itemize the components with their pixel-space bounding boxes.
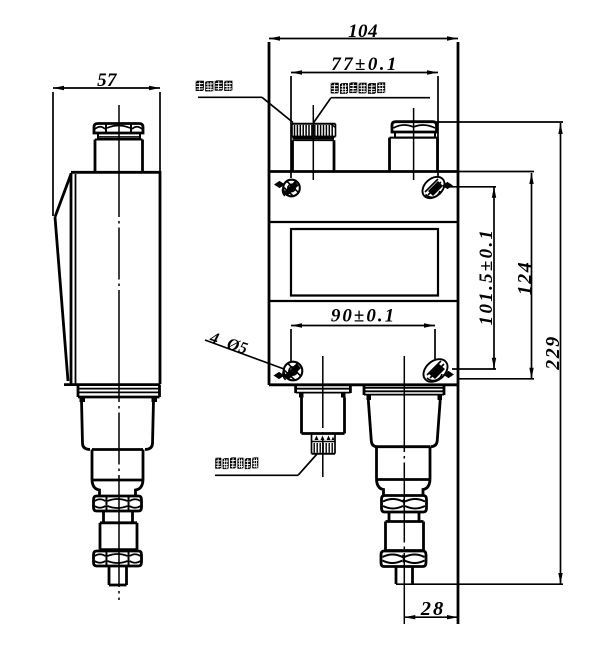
- label lock nut (CJK): [196, 80, 233, 91]
- left connector corner seals: [299, 393, 346, 398]
- diff adjusting knurl: [312, 434, 336, 454]
- label set-point rod (CJK): [331, 82, 386, 93]
- screw bottom-left arrow: [274, 372, 285, 379]
- dim 77 text: [331, 54, 399, 75]
- side view cap washer: [98, 133, 140, 139]
- side view threaded stem: [109, 566, 127, 585]
- right connector lower section: [377, 447, 431, 480]
- dim 229 line: [558, 123, 562, 584]
- knob washer lines: [293, 138, 335, 140]
- screw top-right arrow: [442, 182, 453, 189]
- dim 90 text: [331, 306, 396, 327]
- 101.5 top reference line: [443, 186, 496, 188]
- left connector flange: [296, 385, 351, 393]
- dim 90 right extension: [434, 329, 436, 359]
- left connector cylinder: [302, 398, 345, 434]
- dim 229 text: [542, 335, 564, 371]
- dim 104 text: [348, 21, 378, 42]
- 124 bottom reference line: [458, 378, 534, 380]
- 229 top reference line: [437, 121, 564, 123]
- screw top-right: [418, 173, 448, 203]
- side view block: [100, 523, 137, 550]
- set-point adjusting rod knurl: [292, 124, 336, 137]
- label diff rod (CJK): [215, 457, 258, 469]
- svg-text:229: 229: [542, 335, 564, 371]
- front window plate: [291, 229, 438, 296]
- 124 top reference line: [458, 171, 534, 173]
- side view post: [95, 140, 143, 172]
- dim 77 right extension: [437, 76, 439, 177]
- dim 90 line: [291, 323, 435, 327]
- dim 124 line: [529, 173, 533, 379]
- side view flange: [78, 385, 160, 397]
- side view hex nut upper: [94, 496, 142, 511]
- right connector flange: [364, 385, 444, 395]
- side view center line: [118, 105, 120, 600]
- right connector block: [386, 522, 424, 551]
- front body bottom edge: [269, 383, 458, 386]
- dim 90 left extension: [290, 329, 292, 361]
- front body right edge w/ extension: [457, 42, 460, 624]
- screw top-left: [283, 180, 300, 197]
- svg-text:124: 124: [514, 261, 536, 296]
- right connector neck: [377, 480, 431, 496]
- dim 77 line: [291, 70, 438, 74]
- dim 28 line: [404, 615, 458, 619]
- side view neck 2: [104, 511, 133, 523]
- front body divider lower: [269, 300, 458, 302]
- right connector hex nut lower: [381, 551, 426, 567]
- svg-text:90±0.1: 90±0.1: [331, 306, 396, 327]
- dim 101.5 text: [476, 228, 497, 326]
- dim 57 left extension line: [52, 92, 54, 216]
- label 4-dia5 text: [207, 327, 251, 358]
- dim 77 left extension: [290, 76, 292, 178]
- side view cup lower section: [92, 450, 143, 481]
- dim 28 text: [420, 598, 446, 620]
- label lock nut leader: [198, 97, 293, 122]
- left connector center line: [322, 356, 324, 477]
- screw top-left arrow: [274, 181, 285, 188]
- screw bottom-right arrow: [443, 371, 454, 378]
- side view hex cap nut: [94, 124, 143, 134]
- dim 104 line: [269, 36, 458, 40]
- screw bottom-left: [283, 362, 302, 381]
- dim 57 line: [53, 86, 160, 90]
- right cap center line: [413, 108, 415, 180]
- label set-point rod leader: [313, 98, 430, 124]
- 101.5 bottom reference line: [452, 368, 496, 370]
- right connector neck 2: [389, 512, 419, 522]
- label 4-dia5 leader: [205, 340, 284, 369]
- right cap washer: [395, 132, 435, 138]
- side view neck: [92, 480, 143, 496]
- side view body outline: [55, 171, 160, 385]
- dim 101.5 line: [492, 187, 496, 369]
- screw bottom-right: [419, 355, 452, 387]
- front body divider upper: [269, 221, 458, 223]
- knob post: [293, 140, 335, 171]
- front body left edge w/ extension: [268, 42, 271, 385]
- right cap post: [390, 138, 438, 172]
- right connector center line: [403, 356, 405, 624]
- knob center line: [312, 105, 314, 180]
- side view hex nut lower: [94, 551, 142, 566]
- side view pressure cup: [82, 400, 154, 450]
- dim 57 text: [97, 70, 118, 91]
- right connector cup: [368, 400, 440, 447]
- dim 57 right extension line: [159, 92, 161, 172]
- right cap nut: [392, 122, 437, 132]
- front body top edge: [269, 170, 458, 173]
- 229 bottom reference line: [396, 583, 563, 585]
- right connector hex nut upper: [382, 496, 427, 513]
- right connector threaded stem: [396, 567, 413, 585]
- right connector corner seals: [367, 395, 443, 400]
- side view flange corner seals: [80, 397, 158, 402]
- svg-text:101.5±0.1: 101.5±0.1: [476, 228, 497, 326]
- dim 124 text: [514, 261, 536, 296]
- label diff rod leader: [215, 454, 317, 475]
